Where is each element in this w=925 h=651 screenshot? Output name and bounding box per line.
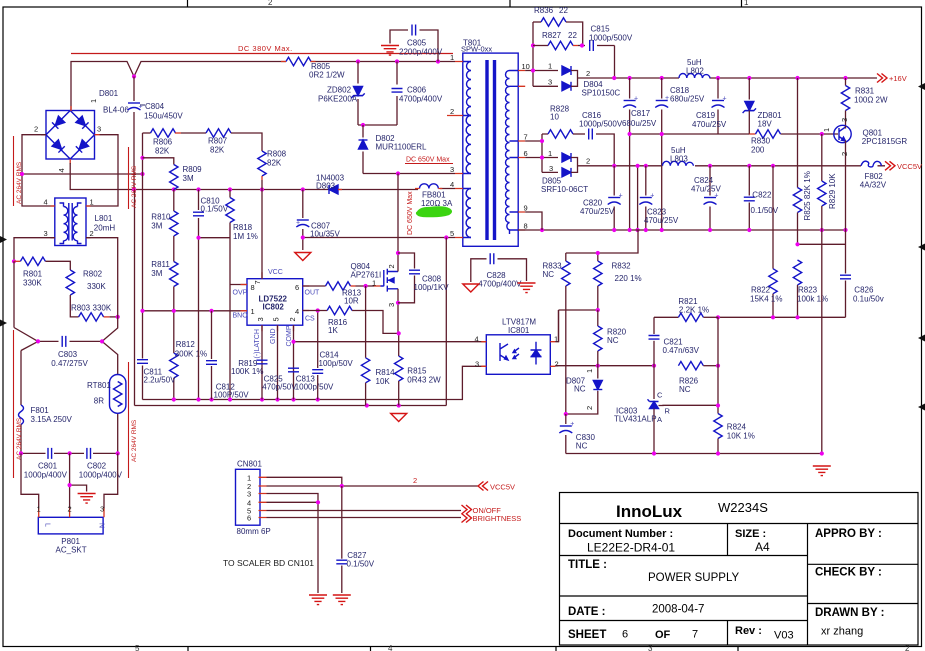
svg-text:R831: R831 [855, 87, 875, 96]
svg-text:F801: F801 [31, 406, 50, 415]
wire: +16V rail y=78 [588, 77, 877, 79]
svg-text:6: 6 [247, 514, 251, 523]
capacitor C817 [622, 78, 657, 230]
svg-text:4700p/400V: 4700p/400V [399, 95, 443, 104]
wire: R811/R812 tap to IC802 pin1 [143, 310, 248, 312]
svg-text:R807: R807 [208, 137, 228, 146]
svg-text:20mH: 20mH [94, 224, 116, 233]
capacitor C807 [296, 190, 340, 251]
net label DC 380V Max (red) [71, 44, 453, 54]
svg-text:1000p/50V: 1000p/50V [295, 383, 334, 392]
svg-text:+: + [714, 193, 718, 200]
resistor R828 [548, 105, 585, 139]
wire: IC802 pin6 OUT to gate [303, 285, 326, 287]
svg-text:A4: A4 [755, 540, 770, 554]
svg-text:2.2K 1%: 2.2K 1% [679, 306, 709, 315]
resistor R825 [793, 78, 812, 244]
capacitor C827 [336, 486, 374, 593]
svg-text:+16V: +16V [889, 74, 907, 83]
wire: tap10 node [525, 22, 558, 86]
svg-text:4: 4 [388, 644, 393, 651]
svg-text:SP10150C: SP10150C [582, 89, 621, 98]
diode D805 dual SRF10-06CT [541, 149, 590, 194]
capacitor C812 [206, 311, 249, 400]
svg-text:470u/25V: 470u/25V [644, 216, 679, 225]
svg-text:R830: R830 [751, 137, 771, 146]
svg-text:3: 3 [549, 164, 553, 173]
svg-text:C822: C822 [752, 191, 772, 200]
svg-text:SIZE :: SIZE : [735, 528, 766, 540]
svg-text:0.1u/50v: 0.1u/50v [853, 295, 884, 304]
svg-text:CS: CS [305, 316, 315, 323]
wire: ZD802/C806 bottom row [358, 124, 397, 126]
svg-text:C815: C815 [591, 25, 611, 34]
power port VCC5V (input) [478, 482, 515, 492]
svg-text:1: 1 [744, 0, 749, 7]
svg-text:100p/1KV: 100p/1KV [414, 283, 450, 292]
svg-text:2: 2 [586, 69, 590, 78]
svg-text:2200p/400V: 2200p/400V [399, 48, 443, 57]
svg-text:80mm 6P: 80mm 6P [237, 527, 271, 536]
svg-text:TLV431ALP: TLV431ALP [614, 415, 657, 424]
wire: secondary feedback ground rail y=453.5 [566, 230, 822, 454]
svg-text:D803: D803 [316, 182, 336, 191]
svg-text:1: 1 [548, 62, 552, 71]
svg-text:1: 1 [37, 505, 41, 514]
svg-text:300K 1%: 300K 1% [175, 350, 207, 359]
ground (earth) below rail [813, 466, 831, 476]
svg-text:680u/25V: 680u/25V [670, 95, 705, 104]
svg-text:C805: C805 [407, 39, 427, 48]
capacitor C815 [580, 25, 633, 79]
IC U802 LD7522 [233, 269, 321, 359]
resistor R826 [678, 362, 720, 395]
wire: aux vertical at x=637.6 [636, 164, 640, 232]
fuse F802 [860, 161, 887, 189]
svg-text:1: 1 [450, 53, 454, 62]
svg-text:10: 10 [550, 113, 559, 122]
capacitor C801 [24, 448, 68, 480]
capacitor C808 [398, 253, 449, 303]
svg-text:10K: 10K [376, 377, 391, 386]
svg-text:CHECK BY :: CHECK BY : [815, 567, 882, 579]
svg-text:NC: NC [607, 336, 619, 345]
svg-text:R823: R823 [798, 286, 818, 295]
wire: IC802 pin 3/5/2 leads to ground rail [262, 325, 294, 399]
wire: CN801 pin2 VCC5V line [267, 485, 479, 487]
resistor R816 [327, 306, 399, 335]
svg-text:9: 9 [524, 204, 528, 213]
svg-text:OF: OF [655, 629, 671, 641]
svg-text:+: + [723, 96, 727, 103]
resistor R808 [258, 150, 287, 190]
svg-text:AC 264V RMS: AC 264V RMS [16, 161, 23, 204]
svg-text:2PC1815GR: 2PC1815GR [862, 137, 908, 146]
svg-text:C819: C819 [696, 111, 716, 120]
svg-text:OUT: OUT [305, 290, 321, 297]
svg-text:1000p/500V: 1000p/500V [589, 34, 633, 43]
capacitor C803 [14, 261, 104, 368]
svg-text:100p/50V: 100p/50V [319, 359, 354, 368]
wire: T801 pin5 to primary power return [445, 238, 447, 406]
wire: VCC5V rail y=165.8 [588, 165, 885, 167]
svg-text:3: 3 [475, 360, 479, 369]
svg-text:1: 1 [89, 99, 98, 103]
svg-text:10K 1%: 10K 1% [727, 431, 755, 440]
wire: primary power return rail y=405.5 [135, 190, 447, 406]
svg-text:SRF10-06CT: SRF10-06CT [541, 185, 588, 194]
svg-text:2: 2 [387, 264, 396, 268]
svg-text:NC: NC [679, 385, 691, 394]
svg-text:DC 380V Max.: DC 380V Max. [238, 44, 293, 53]
svg-text:AC 264V RMS: AC 264V RMS [131, 419, 138, 462]
title block [560, 493, 919, 646]
ground (earth) at C805 [381, 46, 399, 56]
wire: tap7/tap6 snubber and D805 anodes [525, 134, 558, 172]
svg-text:C802: C802 [87, 462, 107, 471]
svg-text:4: 4 [57, 168, 66, 172]
svg-text:2: 2 [413, 476, 417, 485]
svg-text:10: 10 [522, 62, 530, 71]
svg-text:RT801: RT801 [87, 381, 111, 390]
capacitor C830 [559, 412, 595, 454]
svg-text:0.1/50V: 0.1/50V [201, 205, 229, 214]
capacitor C821 [649, 317, 700, 365]
svg-text:+: + [650, 193, 654, 200]
svg-text:2: 2 [34, 125, 38, 134]
svg-text:LE22E2-DR4-01: LE22E2-DR4-01 [587, 541, 675, 555]
resistor R815 [395, 356, 442, 406]
svg-text:4: 4 [450, 180, 454, 189]
svg-text:47u/25V: 47u/25V [691, 185, 721, 194]
svg-text:+: + [665, 95, 669, 102]
svg-text:7: 7 [253, 280, 262, 284]
resistor R820 [594, 310, 627, 366]
svg-text:L803: L803 [670, 155, 688, 164]
wire: C807 node to T801 pin5 [303, 237, 455, 239]
svg-text:R803: R803 [71, 304, 91, 313]
svg-text:0.47n/63V: 0.47n/63V [663, 346, 700, 355]
svg-text:3.15A 250V: 3.15A 250V [31, 415, 73, 424]
svg-text:R829 10K: R829 10K [828, 173, 837, 209]
wire: CN801 pin6 BRIGHTNESS [267, 517, 462, 519]
svg-text:4: 4 [295, 307, 299, 316]
svg-text:W2234S: W2234S [718, 500, 768, 515]
wire: secondary return rail y=230 [518, 229, 845, 231]
wire: CN801 pin4 to ground [267, 502, 319, 593]
svg-text:680u/25V: 680u/25V [622, 119, 657, 128]
resistor R802 [66, 270, 106, 317]
svg-text:220 1%: 220 1% [615, 274, 642, 283]
resistor R836 [533, 6, 583, 46]
svg-text:7: 7 [692, 629, 698, 641]
ground (earth) at P801 [78, 494, 96, 504]
svg-text:1: 1 [251, 307, 255, 316]
resistor R823 [793, 260, 828, 317]
svg-text:NC: NC [576, 442, 588, 451]
wire: CN801 pin1 jog [267, 477, 342, 486]
svg-text:1000p/400V: 1000p/400V [79, 471, 123, 480]
svg-text:IC801: IC801 [508, 326, 530, 335]
svg-text:3: 3 [44, 229, 48, 238]
wire: VCC supply into IC802 pin7 [261, 190, 263, 279]
svg-text:R812: R812 [176, 340, 196, 349]
svg-text:3: 3 [97, 125, 101, 134]
resistor R821 [654, 297, 718, 321]
wire: AC cap row y=453.4 [21, 452, 118, 454]
svg-text:18V: 18V [758, 120, 773, 129]
svg-text:GND: GND [270, 328, 277, 344]
svg-text:VCC: VCC [268, 269, 283, 276]
svg-text:1000p/500V: 1000p/500V [579, 120, 623, 129]
svg-text:4700p/400V: 4700p/400V [478, 280, 522, 289]
svg-text:82K: 82K [267, 159, 282, 168]
svg-text:P6KE200A: P6KE200A [318, 95, 358, 104]
resistor R806 [143, 129, 182, 156]
svg-text:Document Number :: Document Number : [568, 528, 673, 540]
svg-text:2: 2 [840, 152, 849, 156]
svg-text:1: 1 [548, 149, 552, 158]
svg-text:0.1/50V: 0.1/50V [751, 206, 779, 215]
svg-text:VCC5V: VCC5V [897, 162, 922, 171]
svg-text:470u/25V: 470u/25V [692, 120, 727, 129]
resistor R809 [143, 158, 203, 190]
svg-text:R806: R806 [153, 138, 173, 147]
svg-text:NC: NC [543, 270, 555, 279]
svg-text:5: 5 [135, 644, 140, 651]
bridge rectifier D801 [34, 89, 129, 173]
svg-text:BL4-06: BL4-06 [103, 106, 129, 115]
svg-text:C817: C817 [631, 109, 651, 118]
svg-text:C803: C803 [58, 350, 78, 359]
capacitor C811 [137, 360, 176, 385]
svg-text:2: 2 [450, 107, 454, 116]
fuse F801 [19, 351, 73, 454]
capacitor C820 [580, 166, 623, 230]
ground (triangle) below R815 [391, 414, 407, 422]
svg-text:OVP: OVP [233, 290, 248, 297]
svg-text:3M: 3M [151, 222, 162, 231]
svg-text:8: 8 [524, 222, 528, 231]
svg-text:4A/32V: 4A/32V [860, 181, 887, 190]
L801 common-mode choke [44, 198, 116, 246]
svg-text:L801: L801 [95, 214, 113, 223]
svg-text:2: 2 [288, 317, 297, 321]
svg-text:82K: 82K [155, 147, 170, 156]
svg-text:R802: R802 [83, 270, 103, 279]
svg-text:100k 1%: 100k 1% [797, 295, 828, 304]
svg-text:22: 22 [568, 31, 577, 40]
svg-text:330K: 330K [87, 282, 106, 291]
svg-text:1: 1 [247, 473, 251, 482]
svg-text:3: 3 [450, 165, 454, 174]
wire: COMP net to IC801 pin4 [294, 341, 487, 343]
resistor R819 label [231, 359, 263, 376]
svg-text:0R43 2W: 0R43 2W [407, 375, 441, 384]
shunt reg IC803 TLV431ALP [614, 366, 718, 454]
svg-text:330K: 330K [93, 304, 112, 313]
wire: IC802 pin8 OVP lead [230, 284, 247, 286]
svg-text:DC 650V Max: DC 650V Max [407, 191, 414, 235]
svg-text:R801: R801 [23, 270, 43, 279]
power port VCC5V [885, 161, 922, 171]
svg-text:R818: R818 [233, 223, 253, 232]
wire: R832/R833 top to rail-2 [566, 230, 638, 253]
svg-text:100Ω 2W: 100Ω 2W [854, 96, 888, 105]
wire: drain column x=398 [397, 174, 400, 357]
capacitor C814 [312, 308, 353, 399]
svg-text:150u/450V: 150u/450V [144, 112, 183, 121]
wire: D802 to T801 pin3 [363, 173, 455, 175]
resistor R818 [226, 190, 258, 400]
node: DC+ junctions [132, 59, 440, 78]
ground (earth) at C828 right [518, 283, 536, 293]
svg-text:1: 1 [585, 369, 594, 373]
resistor R833 [543, 253, 571, 414]
wire: primary signal ground rail y=399.5 [143, 366, 487, 399]
svg-text:3: 3 [247, 490, 251, 499]
svg-text:NC: NC [574, 385, 586, 394]
svg-text:3: 3 [548, 78, 552, 87]
wire: CN801 pin5 ON/OFF [267, 510, 462, 512]
svg-text:2: 2 [268, 0, 273, 7]
highlight: green marker blob [416, 206, 452, 217]
svg-text:TO SCALER BD CN101: TO SCALER BD CN101 [223, 558, 314, 568]
svg-text:AC 264V RMS: AC 264V RMS [131, 165, 138, 208]
thermistor RT801 [87, 375, 126, 414]
diode D807 [566, 366, 603, 414]
svg-text:C: C [657, 391, 663, 400]
svg-text:6: 6 [524, 149, 528, 158]
svg-text:ZD802: ZD802 [327, 86, 352, 95]
svg-text:R814: R814 [376, 368, 396, 377]
resistor R822 [750, 166, 782, 317]
svg-text:22: 22 [559, 6, 568, 15]
wire: bridge output to T801 pin1 (DC+ bus) [71, 62, 455, 112]
svg-text:1M 1%: 1M 1% [233, 232, 258, 241]
svg-text:CN801: CN801 [237, 460, 262, 469]
svg-text:2008-04-7: 2008-04-7 [652, 604, 704, 616]
svg-text:R808: R808 [267, 150, 287, 159]
svg-text:1: 1 [372, 279, 376, 288]
resistor R814 [361, 286, 395, 406]
wire: 16V regulator base line y=134 [630, 133, 838, 135]
svg-text:C801: C801 [38, 462, 58, 471]
svg-text:R824: R824 [727, 423, 747, 432]
ground (triangle) at C828 left [463, 284, 479, 292]
svg-text:2: 2 [68, 505, 72, 514]
wire: CN801 pin3 jog [267, 494, 319, 503]
svg-text:3M: 3M [151, 269, 162, 278]
wire: bridge pin2 to L801 pin4, AC line [22, 135, 55, 206]
resistor R830 [749, 130, 780, 155]
inductor L802 [679, 58, 710, 78]
resistor R832 [594, 253, 642, 310]
inductor L803 [663, 146, 694, 166]
svg-text:330K: 330K [23, 279, 42, 288]
svg-text:A: A [657, 415, 662, 424]
svg-text:+: + [296, 220, 300, 227]
svg-text:R: R [665, 407, 671, 416]
diode D804 dual SP10150C [548, 62, 620, 98]
resistor R813 [326, 282, 381, 306]
connector P801 AC_SKT [37, 505, 105, 555]
svg-text:6: 6 [295, 283, 299, 292]
svg-text:4: 4 [475, 335, 479, 344]
svg-text:3M: 3M [183, 174, 194, 183]
svg-text:TITLE :: TITLE : [568, 559, 607, 571]
capacitor C804 [128, 77, 184, 190]
svg-text:R815: R815 [407, 367, 427, 376]
svg-text:L802: L802 [686, 67, 704, 76]
svg-text:SHEET: SHEET [568, 629, 606, 641]
svg-text:1: 1 [822, 128, 831, 132]
svg-text:MUR1100ERL: MUR1100ERL [376, 143, 428, 152]
svg-text:5: 5 [272, 317, 281, 321]
svg-text:SPW-0xx: SPW-0xx [461, 45, 492, 54]
net label AC 264V RMS right lower [129, 362, 139, 478]
resistor R805 [281, 57, 345, 79]
svg-text:R825 82K 1%: R825 82K 1% [803, 171, 812, 220]
resistor R824 [714, 414, 755, 454]
wire: AC sense wire y=174 [22, 173, 143, 175]
net label DC 650V Max horizontal [405, 157, 453, 164]
resistor R829 [818, 134, 837, 230]
resistor R811 [151, 260, 178, 311]
svg-text:100K 1%: 100K 1% [231, 367, 263, 376]
zener ZD801 [743, 78, 782, 134]
svg-text:10R: 10R [344, 297, 359, 306]
capacitor C813 [288, 368, 334, 391]
wire: R825/R823 node to C826 top [798, 243, 846, 245]
svg-text:APPRO BY :: APPRO BY : [815, 528, 882, 540]
svg-text:6: 6 [622, 629, 628, 641]
wire: emitter column to C826 [845, 166, 847, 317]
transistor Q801 2PC1815GR [822, 118, 907, 166]
wire: bridge pin3 to L801 pin1 [86, 135, 118, 206]
capacitor C810 [193, 190, 229, 400]
net label AC 264V RMS right upper [129, 147, 139, 209]
svg-text:7: 7 [524, 133, 528, 142]
svg-text:+: + [634, 96, 638, 103]
capacitor C818 [655, 78, 705, 230]
svg-text:470u/25V: 470u/25V [580, 207, 615, 216]
svg-text:0.1/50V: 0.1/50V [347, 560, 375, 569]
port BRIGHTNESS [462, 514, 522, 524]
svg-text:8R: 8R [94, 397, 104, 406]
svg-text:R822: R822 [751, 286, 771, 295]
capacitor C816 [579, 111, 623, 166]
svg-text:15K4 1%: 15K4 1% [750, 295, 782, 304]
capacitor C825 [257, 360, 298, 391]
zener ZD802 [318, 62, 365, 126]
svg-text:R836: R836 [534, 6, 554, 15]
svg-text:82K: 82K [210, 146, 225, 155]
capacitor C826 [840, 275, 884, 303]
net label AC 264V RMS left lower [14, 330, 24, 478]
capacitor C802 [79, 448, 123, 480]
svg-text:N: N [98, 523, 105, 528]
svg-text:R809: R809 [183, 165, 203, 174]
ground (earth) below C827 [333, 595, 351, 605]
svg-text:1000p/400V: 1000p/400V [24, 471, 68, 480]
resistor R810 [151, 190, 178, 262]
svg-text:+: + [570, 421, 574, 428]
wire: opto feedback y=308.8 [559, 310, 598, 342]
ground (triangle) below C807 [295, 253, 311, 261]
wire: IC801 pin2 net y=365.7 [555, 365, 654, 367]
resistor R803 [71, 304, 120, 322]
